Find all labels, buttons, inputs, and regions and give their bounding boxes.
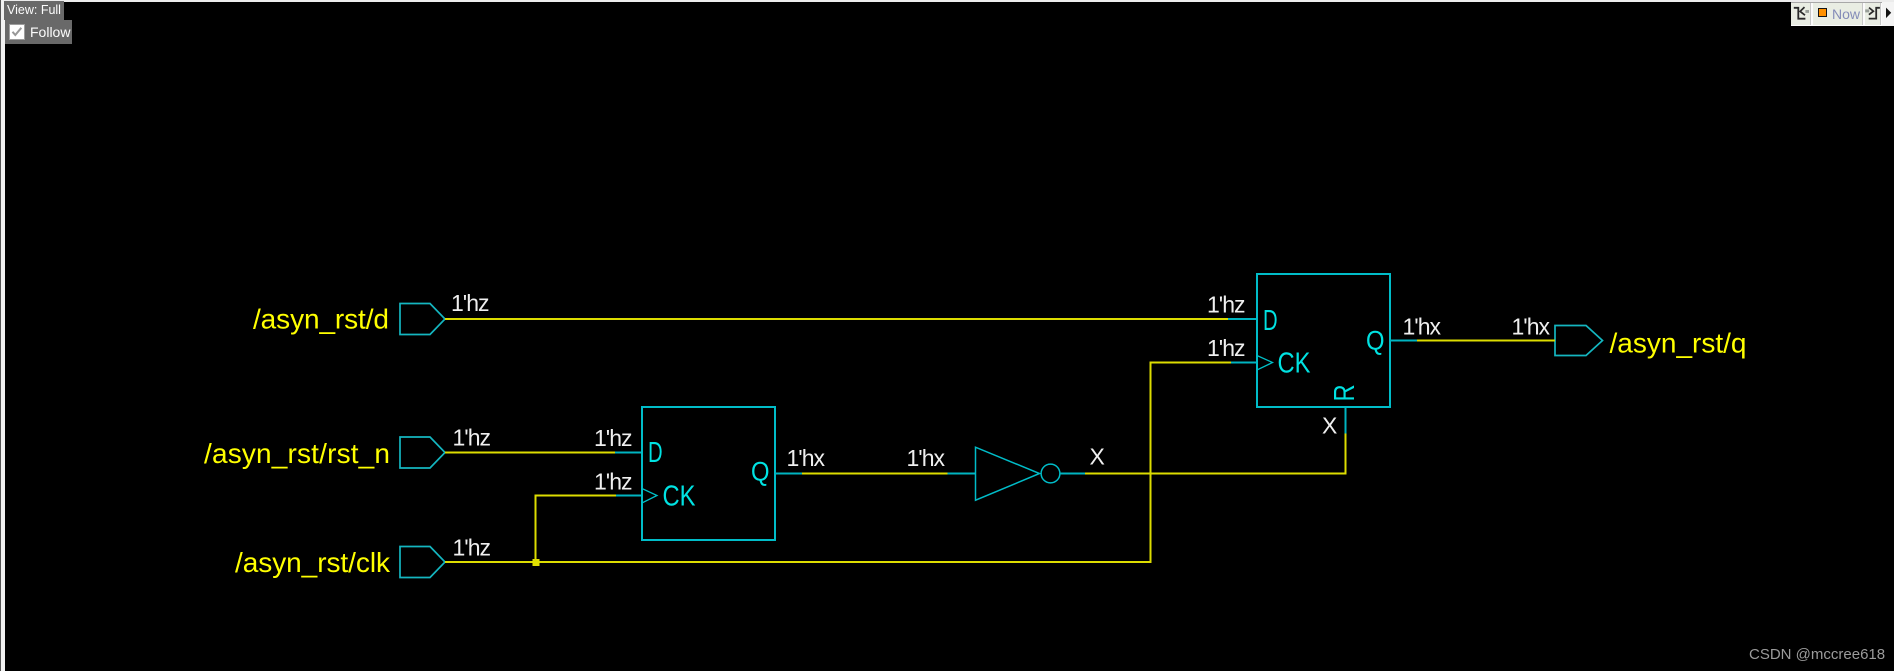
svg-text:X: X [1090, 444, 1105, 470]
input port /asyn_rst/rst_n [400, 437, 445, 468]
Follow check mark [9, 24, 25, 40]
svg-text:1'hx: 1'hx [1403, 314, 1442, 340]
pin stub U2 R [1345, 407, 1347, 434]
pin stub U1 CK [616, 495, 642, 497]
inverter bubble [1041, 464, 1060, 483]
pin stub U2 CK [1231, 362, 1257, 364]
svg-text:1'hz: 1'hz [453, 425, 492, 451]
junction dot clk [533, 559, 540, 566]
svg-text:/asyn_rst/clk: /asyn_rst/clk [235, 547, 391, 578]
svg-text:1'hx: 1'hx [787, 445, 826, 471]
wire clk net horizontal [445, 561, 1152, 563]
Now stop square [1818, 8, 1827, 17]
svg-text:1'hz: 1'hz [453, 535, 492, 561]
svg-text:/asyn_rst/q: /asyn_rst/q [1610, 328, 1747, 359]
svg-text:/asyn_rst/d: /asyn_rst/d [253, 304, 389, 335]
Follow checkbox panel [5, 20, 72, 44]
wire clk branch horizontal to U1 CK [535, 495, 617, 497]
svg-text:R: R [1329, 384, 1361, 401]
prev-edge button separator [1810, 3, 1813, 25]
svg-text:CK: CK [663, 481, 697, 513]
output port /asyn_rst/q [1555, 326, 1603, 356]
pin stub U1 Q [775, 473, 802, 475]
expand arrow [1882, 2, 1894, 26]
svg-text:1'hz: 1'hz [451, 290, 490, 316]
CSDN watermark [1749, 647, 1885, 663]
input port /asyn_rst/d [400, 304, 445, 335]
left border strip [0, 0, 5, 671]
wire clk branch vertical to U1 CK [535, 496, 537, 563]
Now cell separator [1862, 3, 1865, 25]
Follow text [30, 25, 70, 40]
pin stub inverter input [948, 473, 976, 475]
pin stub U2 Q [1390, 340, 1417, 342]
svg-text:Q: Q [751, 457, 770, 487]
U2 clock triangle [1257, 356, 1273, 371]
pin stub U2 D [1228, 318, 1257, 320]
wire X net horizontal [1085, 473, 1346, 475]
input port /asyn_rst/clk [400, 547, 445, 578]
svg-text:1'hz: 1'hz [594, 469, 633, 495]
expand cell background [1882, 2, 1894, 26]
Now text [1832, 7, 1860, 21]
next-edge icon [1863, 2, 1883, 26]
wire d net horizontal [445, 318, 1228, 320]
svg-text:1'hx: 1'hx [907, 445, 946, 471]
svg-text:D: D [1263, 305, 1278, 337]
next cell separator [1880, 3, 1883, 25]
svg-text:X: X [1322, 413, 1337, 439]
wire U1 Q to inverter [802, 473, 948, 475]
svg-text:D: D [648, 437, 663, 469]
wire clk horizontal to U2 CK [1150, 362, 1232, 364]
flip-flop U1 box [642, 407, 775, 540]
wire X net vertical to U2 R [1345, 434, 1347, 475]
svg-text:CK: CK [1278, 348, 1312, 380]
svg-text:1'hx: 1'hx [1512, 314, 1551, 340]
Follow checkbox box [9, 24, 25, 40]
svg-text:Q: Q [1366, 326, 1385, 356]
top border strip [0, 0, 1894, 2]
svg-text:1'hz: 1'hz [1207, 335, 1246, 361]
svg-text:1'hz: 1'hz [594, 425, 633, 451]
pin stub inverter output [1060, 473, 1085, 475]
toolbar panel [1791, 2, 1894, 26]
wire U2 Q to output port [1417, 340, 1555, 342]
pin stub U1 D [615, 452, 642, 454]
View: Full label [4, 1, 64, 20]
wire clk vertical to U2 CK [1150, 363, 1152, 563]
svg-text:1'hz: 1'hz [1207, 292, 1246, 318]
U1 clock triangle [642, 489, 657, 504]
flip-flop U2 box [1257, 274, 1390, 407]
inverter triangle [976, 447, 1040, 500]
svg-text:/asyn_rst/rst_n: /asyn_rst/rst_n [204, 438, 390, 469]
prev-edge icon [1791, 2, 1811, 26]
wire rst_n net [445, 452, 615, 454]
